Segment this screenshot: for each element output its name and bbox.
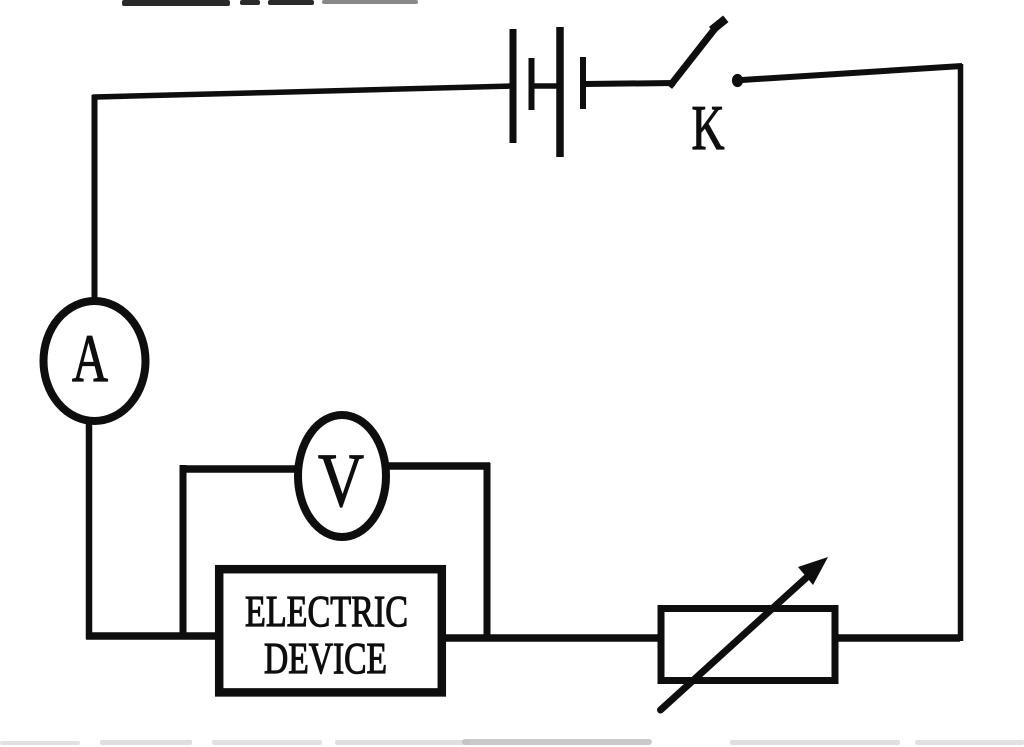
wire battery to switch — [584, 83, 675, 84]
switch blade — [672, 22, 723, 85]
rheostat arrow — [661, 557, 829, 710]
scan artifact bottom edge — [0, 739, 1024, 745]
svg-text:DEVICE: DEVICE — [264, 634, 387, 683]
battery plate short right — [580, 57, 586, 109]
switch contact dot — [732, 74, 743, 87]
electric device box — [219, 569, 442, 692]
battery plate long left — [510, 29, 517, 143]
svg-text:A: A — [72, 320, 108, 396]
battery plate long right — [556, 27, 564, 157]
wire top-right (switch to corner) — [742, 66, 962, 80]
voltmeter left vertical wire — [180, 465, 187, 634]
wire bottom-right — [836, 634, 960, 642]
battery link wire — [531, 83, 560, 89]
battery plate short left — [529, 58, 535, 110]
voltmeter left horizontal wire — [180, 465, 298, 473]
scan artifact top edge — [122, 0, 418, 6]
wire bottom-left — [86, 632, 218, 640]
voltmeter V — [298, 415, 386, 537]
svg-text:K: K — [692, 92, 725, 163]
wire left vertical lower — [86, 423, 93, 639]
ammeter A — [44, 301, 146, 421]
wire left vertical upper — [92, 95, 98, 299]
rheostat box — [661, 609, 835, 681]
wire top-left horizontal — [95, 86, 513, 97]
wire right vertical — [958, 64, 964, 641]
wire bottom-middle — [444, 634, 662, 642]
svg-text:ELECTRIC: ELECTRIC — [245, 587, 408, 636]
svg-text:V: V — [318, 439, 364, 523]
voltmeter right vertical wire — [484, 463, 491, 640]
voltmeter right horizontal wire — [388, 462, 490, 470]
